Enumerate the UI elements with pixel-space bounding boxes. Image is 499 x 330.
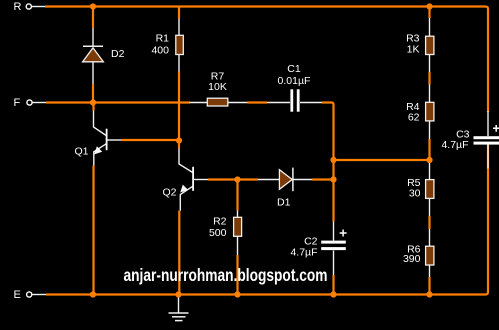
svg-text:D2: D2 [111, 48, 125, 60]
svg-text:4.7µF: 4.7µF [441, 139, 468, 151]
svg-text:400: 400 [151, 45, 169, 57]
svg-text:E: E [14, 289, 21, 301]
svg-text:anjar-nurrohman.blogspot.com: anjar-nurrohman.blogspot.com [124, 265, 328, 285]
svg-text:390: 390 [403, 253, 421, 265]
svg-text:4.7µF: 4.7µF [290, 246, 317, 258]
svg-text:C1: C1 [287, 63, 301, 75]
svg-text:30: 30 [409, 188, 421, 200]
svg-text:0.01µF: 0.01µF [278, 75, 311, 87]
svg-text:62: 62 [408, 112, 420, 124]
svg-text:Q1: Q1 [75, 146, 89, 158]
svg-text:R2: R2 [213, 216, 227, 228]
svg-text:F: F [14, 97, 21, 109]
svg-text:Q2: Q2 [163, 187, 177, 199]
svg-text:D1: D1 [277, 197, 291, 209]
svg-text:R: R [14, 1, 22, 13]
svg-text:500: 500 [209, 227, 227, 239]
svg-text:R1: R1 [156, 33, 170, 45]
svg-text:10K: 10K [208, 81, 227, 93]
svg-text:1K: 1K [407, 44, 420, 56]
